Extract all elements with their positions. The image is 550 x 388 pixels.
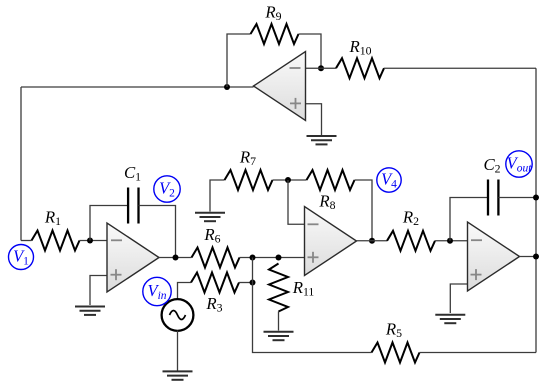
- wire R6 to U2 plus: [240, 257, 305, 259]
- resistor R9: [251, 24, 299, 44]
- U2 plus pin sign: [308, 256, 319, 258]
- U1 minus pin sign: [111, 239, 122, 241]
- capacitor C2: [487, 180, 489, 216]
- node junction R6/column: [250, 255, 256, 261]
- op-amp U1: [107, 223, 159, 292]
- U3 plus pin sign: [471, 274, 482, 276]
- node Vin label: [143, 277, 171, 305]
- wire R1 right lead: [80, 240, 108, 242]
- node junction U3 out / right rail: [533, 254, 539, 260]
- ground under source: [163, 370, 193, 372]
- wire U4 output row: [21, 86, 254, 88]
- wire U1 output to R6: [159, 257, 192, 259]
- ground under R7: [195, 212, 225, 214]
- wire R1 left lead: [21, 240, 32, 242]
- node V4 label: [377, 168, 401, 192]
- wire U3 output to rail: [520, 256, 537, 258]
- resistor R5: [372, 343, 420, 363]
- wire R8 right column: [355, 180, 373, 241]
- wire U2 output to R2: [357, 240, 388, 242]
- wire R3 right lead: [239, 282, 253, 284]
- resistor R8: [307, 170, 355, 190]
- U4 plus pin sign: [290, 102, 301, 104]
- wire C2 right branch: [498, 197, 536, 199]
- op-amp U4 (top, pointing left): [254, 52, 306, 121]
- wire R10 left lead: [321, 67, 336, 69]
- node Vout label: [506, 151, 532, 177]
- resistor R10: [336, 58, 384, 78]
- node junction R7/R8/U2 minus: [285, 177, 291, 183]
- op-amp U3: [468, 222, 520, 291]
- voltage source Vin (sine): [162, 299, 194, 331]
- wire R7 right lead: [273, 179, 307, 181]
- node junction U4 out / R9: [224, 84, 230, 90]
- wire left rail: [20, 87, 22, 241]
- wire U2 minus branch: [288, 180, 305, 224]
- wire C1 left branch: [90, 206, 128, 241]
- node junction R1/C1/U1 minus: [87, 238, 93, 244]
- resistor R3: [191, 273, 239, 293]
- wire R9 left column: [227, 34, 251, 87]
- resistor R11 (vertical): [269, 264, 288, 312]
- U1 plus pin sign: [111, 274, 122, 276]
- resistor R2: [387, 231, 435, 251]
- wire C1 right branch: [139, 206, 176, 258]
- wire R5 right lead: [420, 352, 537, 354]
- capacitor C1: [127, 188, 129, 224]
- node junction R11 top: [276, 255, 282, 261]
- wire C2 left branch: [450, 198, 488, 241]
- node junction U2 out / R8: [369, 238, 375, 244]
- op-amp U2: [305, 207, 357, 276]
- wire U4 minus lead: [306, 67, 322, 69]
- wire R7 ground column: [210, 180, 225, 212]
- wire U1 plus lead to ground: [90, 276, 107, 306]
- U3 minus pin sign: [471, 239, 482, 241]
- ground under op-amp U1: [75, 306, 105, 308]
- node junction U1 out / C1: [173, 255, 179, 261]
- node V1 label: [9, 245, 34, 270]
- node V2 label: [154, 176, 180, 202]
- resistor R7: [225, 170, 273, 190]
- node junction R2/C2/U3 minus: [447, 238, 453, 244]
- U2 minus pin sign: [308, 223, 319, 225]
- wire R11 bottom lead: [278, 312, 280, 331]
- node junction C2 / right rail: [533, 195, 539, 201]
- resistor R6: [192, 248, 240, 268]
- wire R9 right column: [299, 34, 322, 68]
- ground under op-amp U4: [307, 135, 337, 137]
- wire R10 to right rail: [384, 67, 536, 69]
- U4 minus pin sign: [290, 67, 301, 69]
- wire source bottom to ground: [177, 331, 179, 371]
- resistor R1: [32, 231, 80, 251]
- wire U3 plus lead to ground: [450, 284, 467, 313]
- wire middle column down: [253, 258, 372, 353]
- wire U4 plus lead to ground: [306, 104, 322, 135]
- node junction R3/column: [250, 280, 256, 286]
- node junction R9/R10/U4 minus: [318, 65, 324, 71]
- ground under op-amp U3: [435, 314, 465, 316]
- wire source top / R3 left lead: [178, 283, 192, 300]
- ground under R11: [264, 331, 294, 333]
- wire R2 right lead: [435, 240, 468, 242]
- wire right rail: [535, 68, 537, 352]
